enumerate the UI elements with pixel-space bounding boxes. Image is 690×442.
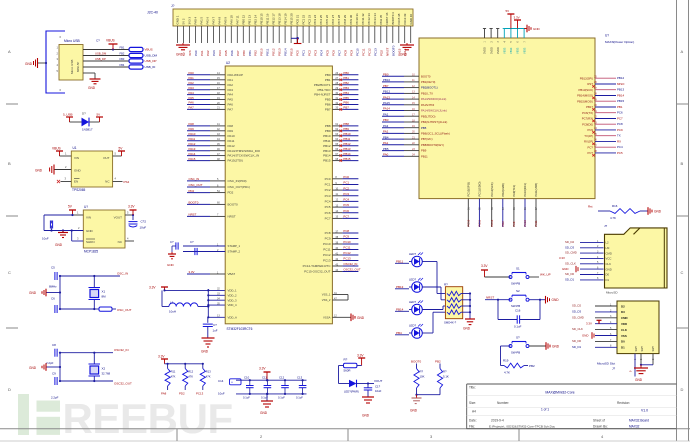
svg-text:PC8 29: PC8 29 <box>343 14 347 24</box>
svg-text:PB9: PB9 <box>343 127 349 131</box>
svg-text:PB1: PB1 <box>248 50 252 56</box>
svg-text:PC12: PC12 <box>323 253 331 257</box>
connector J1 Micro USB shell <box>46 31 83 93</box>
svg-text:PC4: PC4 <box>320 50 324 56</box>
svg-text:J?: J? <box>604 224 608 228</box>
svg-text:PB14: PB14 <box>284 48 288 56</box>
svg-text:PB0: PB0 <box>343 71 349 75</box>
svg-text:PB0 12: PB0 12 <box>242 15 246 25</box>
svg-text:PC1: PC1 <box>325 183 331 187</box>
svg-text:CLK: CLK <box>606 262 612 266</box>
svg-text:OSC32_OUT: OSC32_OUT <box>343 268 360 272</box>
U2 left pin BOOT0 <box>187 201 238 207</box>
U2 left pins PA0-PA7 <box>187 71 243 112</box>
svg-text:PA9(TX1): PA9(TX1) <box>512 185 516 197</box>
svg-text:D2: D2 <box>621 304 625 308</box>
svg-text:U1: U1 <box>73 146 77 150</box>
svg-text:PB1: PB1 <box>325 78 331 82</box>
U2 right VSS pins <box>322 292 348 302</box>
MicroSD slot shield pins to ground <box>630 354 656 382</box>
svg-text:MicroSD: MicroSD <box>606 291 618 295</box>
svg-text:Micro USB: Micro USB <box>64 39 81 43</box>
svg-text:PB11: PB11 <box>421 154 428 158</box>
svg-text:PB2(BOOT1): PB2(BOOT1) <box>421 86 438 90</box>
svg-text:SHDN: SHDN <box>86 240 95 244</box>
LED indicators D2-D5 with net labels <box>395 252 423 338</box>
svg-text:PA9: PA9 <box>512 221 516 226</box>
svg-text:5_USB: 5_USB <box>63 113 73 117</box>
connector J3 J2C-40 header <box>147 4 413 26</box>
svg-text:PB3: PB3 <box>343 86 349 90</box>
J1 pin5 ground <box>57 69 101 90</box>
svg-text:2.2pF: 2.2pF <box>46 361 54 365</box>
U2 left pin NRST <box>187 213 236 219</box>
svg-text:File:: File: <box>469 424 475 428</box>
svg-text:PC7: PC7 <box>338 50 342 56</box>
svg-text:USB_DP: USB_DP <box>145 59 157 63</box>
svg-text:SW?: SW? <box>635 345 638 351</box>
svg-text:SD_CMD: SD_CMD <box>572 315 584 319</box>
svg-text:FB4: FB4 <box>120 63 125 67</box>
svg-text:PC7: PC7 <box>325 217 331 221</box>
svg-text:PC5 26: PC5 26 <box>325 14 329 24</box>
svg-text:PA7: PA7 <box>236 50 240 56</box>
svg-text:3.3V: 3.3V <box>559 256 565 260</box>
svg-text:PB4: PB4 <box>343 91 349 95</box>
svg-text:PA15 38: PA15 38 <box>397 13 401 24</box>
svg-text:VCC: VCC <box>606 257 612 261</box>
svg-text:PC12: PC12 <box>367 48 371 56</box>
U1 pin4 net <box>113 177 130 185</box>
J3 header pins and net labels <box>176 12 413 56</box>
pull-up resistors R11-R13 <box>158 355 211 396</box>
svg-text:VIN: VIN <box>86 216 91 220</box>
U1 pin5 5V out <box>113 147 125 157</box>
svg-text:PB2: PB2 <box>254 50 258 56</box>
svg-text:GND: GND <box>88 86 96 90</box>
crystal X2 symbol <box>89 353 111 381</box>
svg-text:PC8: PC8 <box>325 231 331 235</box>
svg-text:PC9: PC9 <box>343 235 349 239</box>
svg-text:PC11: PC11 <box>323 248 331 252</box>
svg-text:GND: GND <box>260 411 268 415</box>
svg-text:PA5 9: PA5 9 <box>224 16 228 24</box>
svg-text:GND: GND <box>86 229 94 233</box>
svg-text:BOOT0 3: BOOT0 3 <box>391 12 395 25</box>
svg-text:GND: GND <box>176 53 184 57</box>
svg-text:PB12(SPI): PB12(SPI) <box>580 76 593 80</box>
svg-text:R?: R? <box>443 370 447 374</box>
svg-text:PC0 21: PC0 21 <box>295 14 299 24</box>
svg-text:Date:: Date: <box>469 419 477 423</box>
diode D1 1N5817 USB 5V <box>63 112 103 132</box>
svg-text:0.1uF: 0.1uF <box>296 396 303 400</box>
svg-text:VDD_3: VDD_3 <box>228 298 237 302</box>
svg-text:PC13 34: PC13 34 <box>373 13 377 25</box>
svg-text:PB2 14: PB2 14 <box>253 15 257 25</box>
svg-text:VOUT: VOUT <box>114 216 123 220</box>
svg-text:Title:: Title: <box>469 386 476 390</box>
svg-text:PB7: PB7 <box>325 108 331 112</box>
svg-text:PS4: PS4 <box>124 180 130 184</box>
svg-text:PA15(JTDI): PA15(JTDI) <box>228 159 243 163</box>
U4 pin3 shutdown wire <box>71 229 84 241</box>
U3 top power pins <box>483 29 527 55</box>
svg-text:PB10: PB10 <box>260 48 264 56</box>
svg-text:TX(JP): TX(JP) <box>584 134 593 138</box>
svg-text:47K: 47K <box>206 375 211 379</box>
svg-text:PB11: PB11 <box>323 139 330 143</box>
svg-text:PB12: PB12 <box>617 76 624 80</box>
svg-text:GND: GND <box>29 291 37 295</box>
svg-text:10uF: 10uF <box>375 389 382 393</box>
svg-text:PB13: PB13 <box>617 88 624 92</box>
svg-text:PB8: PB8 <box>343 122 349 126</box>
svg-text:OSC_OUT: OSC_OUT <box>117 308 132 312</box>
U1 pin3 no connect <box>57 177 71 184</box>
svg-text:PB1: PB1 <box>617 105 623 109</box>
U4 5V input power <box>68 205 83 217</box>
svg-text:PC10: PC10 <box>323 242 331 246</box>
svg-text:PC1 22: PC1 22 <box>301 14 305 24</box>
U1 pin2 ground <box>35 165 71 175</box>
MicroSD slot J4 body <box>617 301 659 354</box>
svg-text:PA5: PA5 <box>228 98 234 102</box>
svg-text:0.1uF: 0.1uF <box>243 396 250 400</box>
svg-text:PB4-NJRST: PB4-NJRST <box>314 93 331 97</box>
svg-text:VB33: VB33 <box>522 47 526 54</box>
svg-text:RX(JP): RX(JP) <box>584 140 593 144</box>
svg-text:PA6: PA6 <box>230 50 234 56</box>
capacitor C7 1uF at VDDA <box>203 317 218 338</box>
svg-text:PA12: PA12 <box>228 144 235 148</box>
svg-text:SD_D2: SD_D2 <box>572 304 581 308</box>
svg-text:PC3 24: PC3 24 <box>313 14 317 24</box>
svg-text:OSC32_IN: OSC32_IN <box>343 262 357 266</box>
svg-text:D: D <box>681 387 684 392</box>
svg-text:3VDD: 3VDD <box>483 47 487 54</box>
svg-text:BOOT0: BOOT0 <box>228 203 239 207</box>
svg-text:R11: R11 <box>171 370 176 374</box>
J1 ground left <box>25 58 47 68</box>
svg-text:10uF: 10uF <box>42 237 49 241</box>
U3 5V power symbol <box>506 9 515 29</box>
svg-text:PC8: PC8 <box>617 122 623 126</box>
svg-text:PB6(I2C1_SCL)(Flash): PB6(I2C1_SCL)(Flash) <box>421 132 450 136</box>
3.3V feed to cap bank <box>259 367 271 382</box>
U2 right pins PB8-PB15 <box>323 122 358 163</box>
svg-text:PC12: PC12 <box>343 251 351 255</box>
svg-text:GND: GND <box>552 345 560 349</box>
svg-text:D0: D0 <box>621 340 625 344</box>
svg-text:PC5: PC5 <box>325 205 331 209</box>
svg-text:PC11 32: PC11 32 <box>361 13 365 24</box>
U2 VSSA pin to ground <box>323 314 365 322</box>
MicroSD card pins <box>559 240 612 282</box>
svg-text:PB11 16: PB11 16 <box>265 13 269 24</box>
svg-text:GND: GND <box>654 210 662 214</box>
svg-text:PA1: PA1 <box>200 50 204 56</box>
svg-text:PC4 25: PC4 25 <box>319 14 323 24</box>
svg-text:VBAT: VBAT <box>228 272 236 276</box>
svg-text:BOOT0: BOOT0 <box>421 74 431 78</box>
svg-text:NRST: NRST <box>228 215 236 219</box>
svg-text:0.1uF: 0.1uF <box>514 325 522 329</box>
svg-text:PC11: PC11 <box>361 48 365 56</box>
svg-text:PA4 8: PA4 8 <box>218 16 222 24</box>
svg-text:FB1: FB1 <box>120 45 125 49</box>
svg-text:VSS: VSS <box>621 334 627 338</box>
title block <box>467 384 677 429</box>
svg-text:PC10(SPI3): PC10(SPI3) <box>467 182 471 196</box>
decoupling capacitor bank C10-C13 <box>218 376 307 400</box>
svg-text:PB0: PB0 <box>325 73 331 77</box>
svg-text:MINI-5P: MINI-5P <box>76 62 80 72</box>
svg-text:MISO: MISO <box>617 82 625 86</box>
svg-text:SD_D2: SD_D2 <box>565 240 574 244</box>
svg-text:SD_CLK: SD_CLK <box>565 261 576 265</box>
U2 right pins PB0-PB7 <box>314 71 359 112</box>
ground under R17 R18 <box>410 395 422 413</box>
svg-text:1N5817: 1N5817 <box>82 128 93 132</box>
svg-text:PA7 11: PA7 11 <box>236 15 240 24</box>
svg-text:PC3: PC3 <box>325 194 331 198</box>
svg-text:MCP1825: MCP1825 <box>84 250 98 254</box>
svg-text:PC9: PC9 <box>325 237 331 241</box>
svg-text:C13: C13 <box>297 376 303 380</box>
svg-text:R16: R16 <box>612 204 618 208</box>
svg-text:LED?: LED? <box>409 252 416 256</box>
svg-text:R13: R13 <box>206 370 211 374</box>
svg-text:PD2: PD2 <box>228 191 234 195</box>
svg-text:GND: GND <box>362 414 370 418</box>
svg-text:PC?: PC? <box>588 145 594 149</box>
svg-text:VDD_1: VDD_1 <box>228 289 237 293</box>
svg-text:GND: GND <box>35 169 43 173</box>
switch S1 WK_UP <box>481 264 551 286</box>
svg-text:SW?: SW? <box>652 345 655 351</box>
svg-text:Drawn By:: Drawn By: <box>593 424 608 428</box>
svg-text:5.1K: 5.1K <box>443 375 449 379</box>
svg-text:47K: 47K <box>188 375 193 379</box>
svg-text:GND: GND <box>74 169 82 173</box>
ground under cap bank <box>260 393 273 415</box>
IC U1 TPS2065 power switch <box>71 146 112 192</box>
svg-text:D1: D1 <box>621 346 625 350</box>
svg-text:3.3V: 3.3V <box>128 205 135 209</box>
svg-text:VDD: VDD <box>621 322 627 326</box>
svg-text:USB_DM: USB_DM <box>145 54 158 58</box>
svg-text:10uF: 10uF <box>140 226 147 230</box>
svg-text:4.7K: 4.7K <box>610 216 616 220</box>
svg-text:SMD4X-?: SMD4X-? <box>444 321 457 325</box>
svg-text:VB33: VB33 <box>516 47 520 54</box>
resistor pack ground <box>463 319 475 331</box>
svg-text:PA11(USB): PA11(USB) <box>534 183 538 197</box>
svg-text:PA6 10: PA6 10 <box>230 15 234 25</box>
svg-text:Size:: Size: <box>469 401 476 405</box>
switch S3 KEY <box>501 336 560 375</box>
U3 reference and comment <box>605 34 634 45</box>
svg-text:C?: C? <box>170 240 174 244</box>
svg-text:C6: C6 <box>51 297 55 301</box>
svg-text:J2C-40: J2C-40 <box>147 11 158 15</box>
svg-text:Sheet of: Sheet of <box>593 419 605 423</box>
svg-text:U?: U? <box>605 34 609 38</box>
svg-text:PB6: PB6 <box>325 103 331 107</box>
svg-text:PC2: PC2 <box>343 186 349 190</box>
svg-text:3V3: 3V3 <box>188 50 192 56</box>
svg-text:PB8/BOOT0(KEY): PB8/BOOT0(KEY) <box>421 143 444 147</box>
svg-text:PA0-WKUP: PA0-WKUP <box>228 73 243 77</box>
svg-text:S1: S1 <box>516 267 520 271</box>
svg-text:3.3V: 3.3V <box>259 367 266 371</box>
svg-text:Revision:: Revision: <box>617 401 630 405</box>
svg-text:PA2 6: PA2 6 <box>206 16 210 24</box>
svg-text:GND: GND <box>29 366 37 370</box>
switch S2 RESET with cap C18 <box>485 289 559 328</box>
svg-text:1 of 1: 1 of 1 <box>541 408 549 412</box>
svg-text:LED?(PWR): LED?(PWR) <box>344 389 359 393</box>
svg-text:PC9: PC9 <box>349 50 353 56</box>
svg-text:OSC_IN(PD0): OSC_IN(PD0) <box>228 179 247 183</box>
svg-text:PB2: PB2 <box>529 364 535 368</box>
U2 right pins PC0-PC7 <box>325 175 359 221</box>
svg-text:GND: GND <box>635 378 643 382</box>
svg-text:L2: L2 <box>606 241 610 245</box>
svg-text:PB4(NJTRST)(JLink): PB4(NJTRST)(JLink) <box>421 120 447 124</box>
svg-text:PA10(RX1): PA10(RX1) <box>523 183 527 196</box>
svg-text:E:\Projects\..\GD32&STM32-Core: E:\Projects\..\GD32&STM32-Core-TPCB Sch.… <box>489 424 556 428</box>
svg-text:PB12: PB12 <box>323 144 331 148</box>
svg-text:10K: 10K <box>420 375 425 379</box>
svg-text:PC3: PC3 <box>343 192 349 196</box>
svg-text:PB3(JTDO): PB3(JTDO) <box>421 114 436 118</box>
svg-text:PC8: PC8 <box>343 229 349 233</box>
svg-text:PB13: PB13 <box>343 147 350 151</box>
svg-text:3V3 3: 3V3 3 <box>188 17 192 25</box>
svg-text:PC8: PC8 <box>343 50 347 56</box>
svg-text:X1: X1 <box>102 290 106 294</box>
svg-text:PB13: PB13 <box>323 149 331 153</box>
svg-text:WK_UP: WK_UP <box>540 273 551 277</box>
svg-text:D0: D0 <box>606 273 610 277</box>
svg-text:C16: C16 <box>515 309 521 313</box>
svg-text:PD2(CMD): PD2(CMD) <box>501 183 505 196</box>
svg-text:PC6: PC6 <box>617 111 623 115</box>
svg-text:PA13/JTMS/SWDA_DIO: PA13/JTMS/SWDA_DIO <box>228 149 261 153</box>
U3 right pins with net labels <box>577 75 625 156</box>
svg-text:C14: C14 <box>218 379 224 383</box>
svg-text:PA11: PA11 <box>189 137 196 141</box>
svg-text:PA1: PA1 <box>228 78 234 82</box>
svg-text:10uH: 10uH <box>169 310 176 314</box>
svg-text:VSS_1: VSS_1 <box>322 293 331 297</box>
svg-text:C?: C? <box>190 240 194 244</box>
svg-text:D: D <box>8 387 11 392</box>
svg-text:PC9: PC9 <box>617 128 623 132</box>
wire junction under header <box>291 37 301 44</box>
svg-text:PA0: PA0 <box>194 50 198 56</box>
svg-text:PC12(SCK): PC12(SCK) <box>490 182 494 196</box>
svg-text:PB15(MOSI): PB15(MOSI) <box>577 99 593 103</box>
svg-text:GND: GND <box>25 62 33 66</box>
svg-text:8MHz: 8MHz <box>49 285 57 289</box>
svg-text:PB11: PB11 <box>343 137 350 141</box>
LED wires to resistor pack <box>422 262 446 334</box>
svg-text:PC11(SDIO): PC11(SDIO) <box>478 182 482 197</box>
svg-text:A4: A4 <box>472 410 476 414</box>
series resistor R10 and OSC_OUT label <box>99 307 132 312</box>
svg-text:PC10: PC10 <box>343 240 351 244</box>
crystal X2 ground <box>29 363 61 371</box>
svg-text:PC14-TAMPER-RTC: PC14-TAMPER-RTC <box>303 264 332 268</box>
svg-text:3.3V: 3.3V <box>357 354 364 358</box>
svg-text:SD_D0: SD_D0 <box>572 339 581 343</box>
svg-text:2019-9-4: 2019-9-4 <box>491 419 504 423</box>
svg-text:LED?: LED? <box>409 278 416 282</box>
svg-text:PC3: PC3 <box>314 50 318 56</box>
svg-text:STAMP_1: STAMP_1 <box>228 244 241 248</box>
svg-text:LED?: LED? <box>409 300 416 304</box>
svg-text:STM32F103RCT6: STM32F103RCT6 <box>227 327 253 331</box>
svg-text:8M: 8M <box>102 295 107 299</box>
pull-down resistors R17 R18 BOOT0 PB2 <box>411 360 449 396</box>
IC U2 STM32F103 MCU body <box>225 61 332 324</box>
svg-text:PB7(I2C): PB7(I2C) <box>421 137 433 141</box>
svg-text:2.2pF: 2.2pF <box>51 396 59 400</box>
svg-text:SD_D3: SD_D3 <box>572 310 581 314</box>
svg-text:GND 1: GND 1 <box>176 15 180 24</box>
svg-text:PA10: PA10 <box>228 134 235 138</box>
svg-text:OSC32_IN: OSC32_IN <box>114 348 129 352</box>
svg-text:B: B <box>681 161 684 166</box>
svg-text:PC11: PC11 <box>478 219 482 226</box>
MicroSD card U5 outline <box>604 224 667 295</box>
svg-text:PB14(MISO): PB14(MISO) <box>577 94 593 98</box>
svg-text:A: A <box>681 49 684 54</box>
svg-text:PC7 28: PC7 28 <box>337 14 341 24</box>
svg-text:5V: 5V <box>506 9 510 13</box>
svg-text:GND: GND <box>167 263 175 267</box>
svg-text:+: + <box>231 380 233 384</box>
U4 pin4 stub <box>125 237 134 242</box>
svg-text:PB1(KEY0): PB1(KEY0) <box>421 80 435 84</box>
svg-text:PB14 19: PB14 19 <box>283 13 287 24</box>
svg-text:GND: GND <box>533 27 541 31</box>
svg-text:C1?: C1? <box>375 385 381 389</box>
svg-text:VSS_2: VSS_2 <box>322 298 331 302</box>
svg-text:PA8: PA8 <box>228 124 234 128</box>
svg-text:PA2: PA2 <box>228 83 234 87</box>
svg-text:GND: GND <box>201 350 209 354</box>
svg-text:PB12: PB12 <box>343 142 350 146</box>
svg-text:GND: GND <box>55 243 63 247</box>
svg-text:D1: D1 <box>606 278 610 282</box>
crystal X2 32.768kHz circuit <box>46 343 113 400</box>
svg-text:560R: 560R <box>344 369 351 373</box>
svg-text:PB15: PB15 <box>323 159 331 163</box>
svg-text:GND: GND <box>552 298 560 302</box>
svg-text:1uF: 1uF <box>213 329 218 333</box>
svg-text:VSSA: VSSA <box>323 315 331 319</box>
svg-text:PB11: PB11 <box>266 48 270 56</box>
svg-text:3.3V: 3.3V <box>514 16 520 20</box>
U4 input cap C11 10uF and ground <box>42 215 83 247</box>
svg-text:A: A <box>8 49 11 54</box>
U2 left pin VDDA <box>217 315 237 320</box>
svg-text:PC0: PC0 <box>343 175 349 179</box>
